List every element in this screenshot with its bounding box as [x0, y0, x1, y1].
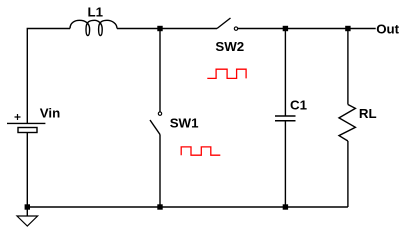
svg-text:RL: RL	[359, 106, 377, 121]
wire top middle segment	[117, 28, 217, 30]
node junction dot top C1	[283, 26, 288, 31]
SW2 control square wave	[207, 69, 246, 78]
switch SW2 contact circle	[234, 27, 237, 30]
battery V1 plus sign	[15, 114, 21, 120]
wire RL branch lower	[347, 141, 349, 207]
ground triangle	[17, 216, 38, 226]
resistor RL zigzag	[339, 105, 355, 142]
svg-text:C1: C1	[290, 97, 308, 112]
wire SW1 branch lower	[159, 135, 161, 208]
capacitor C1 plates	[275, 116, 296, 121]
node junction dot bottom C1	[283, 204, 288, 209]
wire bottom rail	[27, 206, 348, 208]
svg-text:SW2: SW2	[215, 39, 244, 54]
svg-text:Out: Out	[376, 22, 399, 37]
wire battery to bottom rail	[26, 133, 28, 208]
battery V1 negative plate box	[18, 128, 37, 133]
node junction dot bottom SW1	[157, 204, 162, 209]
node junction dot ground	[25, 204, 30, 209]
node junction dot top SW1	[157, 26, 162, 31]
wire SW1 branch upper	[159, 29, 161, 112]
inductor L1 coil	[70, 20, 117, 35]
SW1 control square wave	[181, 147, 220, 155]
svg-text:SW1: SW1	[170, 115, 199, 130]
wire C1 branch upper	[284, 29, 286, 117]
wire left rail + top-left segment	[27, 29, 70, 124]
wire top right segment	[238, 28, 376, 30]
battery V1 positive plate	[7, 122, 45, 124]
switch SW2 blade	[217, 18, 231, 29]
svg-text:L1: L1	[88, 4, 104, 19]
wire RL branch upper	[347, 29, 349, 105]
node junction dot top RL	[345, 26, 350, 31]
switch SW1 blade	[150, 120, 160, 135]
wire C1 branch lower	[284, 121, 286, 207]
svg-text:Vin: Vin	[40, 105, 60, 120]
switch SW1 contact circle	[158, 112, 161, 115]
ground stem	[26, 207, 28, 216]
